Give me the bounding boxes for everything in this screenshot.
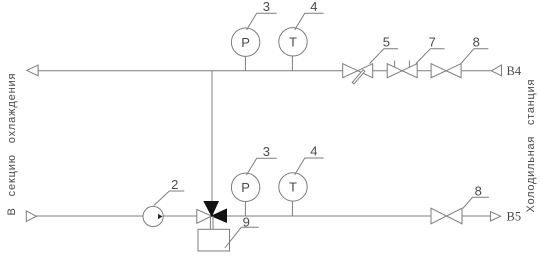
label 4 top leader xyxy=(295,0,324,30)
three-way valve xyxy=(197,202,227,224)
actuator box 9 xyxy=(198,229,230,251)
label 8 bottom leader xyxy=(463,183,489,208)
gauge T bottom U-T2 xyxy=(279,173,307,216)
svg-text:P: P xyxy=(241,180,250,195)
node arrow B5 bottom-right xyxy=(490,210,521,224)
valve 8 bottom xyxy=(431,208,462,224)
svg-text:2: 2 xyxy=(171,177,178,192)
wire top pipe xyxy=(38,70,491,72)
label 2 leader xyxy=(154,177,184,205)
svg-text:3: 3 xyxy=(263,144,270,159)
svg-text:8: 8 xyxy=(475,183,482,198)
valve 8 top xyxy=(431,64,461,78)
svg-text:В4: В4 xyxy=(507,64,522,78)
three-way valve stem xyxy=(210,216,213,229)
label 3 bottom leader xyxy=(247,144,277,175)
label 3 top leader xyxy=(247,0,277,30)
svg-text:3: 3 xyxy=(263,0,270,14)
pump 2 xyxy=(143,206,163,226)
svg-text:5: 5 xyxy=(383,34,390,49)
node arrow in bottom-left xyxy=(26,211,36,221)
svg-text:T: T xyxy=(289,35,297,50)
svg-text:4: 4 xyxy=(310,144,317,159)
svg-text:T: T xyxy=(289,180,297,195)
wire riser from top pipe to three-way valve xyxy=(211,71,213,202)
valve 5 (balancing valve) xyxy=(343,64,373,84)
svg-text:В5: В5 xyxy=(507,210,522,224)
svg-text:4: 4 xyxy=(310,0,317,14)
label 4 bottom leader xyxy=(295,144,324,175)
node arrow out left (to cooling section) xyxy=(27,65,38,76)
svg-text:Холодильная станция: Холодильная станция xyxy=(525,79,537,213)
node arrow B4 top-right xyxy=(491,64,521,78)
label 7 leader xyxy=(416,34,445,63)
gauge T top U-T1 xyxy=(279,28,307,71)
valve 7 (valve with ticks) xyxy=(387,61,417,78)
svg-text:9: 9 xyxy=(243,215,250,230)
label 8 top leader xyxy=(461,34,488,63)
label 5 leader xyxy=(370,34,399,63)
label 9 leader xyxy=(225,215,259,249)
svg-text:8: 8 xyxy=(473,34,480,49)
svg-text:В секцию охлаждения: В секцию охлаждения xyxy=(6,73,18,216)
gauge P top U-P1 xyxy=(231,28,259,71)
gauge P bottom U-P2 xyxy=(231,173,259,216)
wire bottom pipe xyxy=(36,215,490,217)
svg-text:P: P xyxy=(241,35,250,50)
svg-text:7: 7 xyxy=(429,34,436,49)
